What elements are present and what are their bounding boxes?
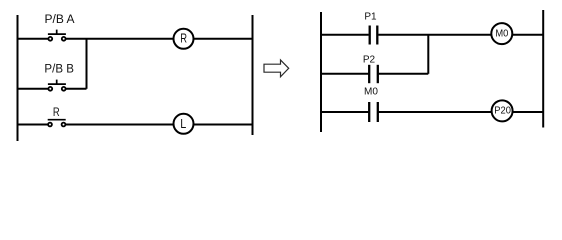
svg-text:M0: M0 (495, 29, 508, 40)
svg-text:R: R (180, 31, 187, 45)
svg-text:P1: P1 (364, 12, 377, 23)
svg-text:P/B B: P/B B (44, 64, 74, 76)
svg-text:M0: M0 (364, 87, 378, 98)
svg-text:P/B A: P/B A (45, 14, 75, 26)
svg-text:P2: P2 (363, 54, 376, 65)
svg-text:R: R (53, 107, 60, 119)
svg-text:L: L (180, 117, 186, 131)
svg-text:P20: P20 (494, 105, 511, 116)
